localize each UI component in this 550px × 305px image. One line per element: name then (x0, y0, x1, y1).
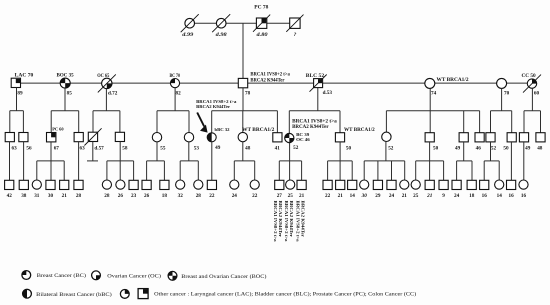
wire G13 sibship line (364, 160, 405, 162)
label II-6 BLC 52 (306, 74, 325, 79)
svg-text:52: 52 (491, 146, 497, 152)
svg-text:BRCA2 K944Ter: BRCA2 K944Ter (289, 201, 294, 238)
wire G15 drop to IV-31 (471, 161, 473, 180)
wire family F2 sibship line (51, 110, 78, 112)
wire family F5 drop to III-11 (276, 111, 278, 133)
label II-2 BOC 35 (57, 74, 75, 79)
wire G6 drop from III-6 (119, 142, 121, 180)
svg-text:74: 74 (431, 90, 437, 96)
legend breast cancer text (37, 272, 86, 279)
svg-text:63: 63 (80, 146, 86, 152)
individual III-21 male square (536, 133, 545, 142)
svg-text:26: 26 (118, 193, 124, 199)
svg-text:BRCA1 IVS8+2 t>a: BRCA1 IVS8+2 t>a (250, 73, 290, 78)
label III-17 age 46 (476, 146, 482, 152)
label III-6 age 58 (122, 146, 128, 152)
svg-text:BRCA2 K944Ter: BRCA2 K944Ter (278, 201, 283, 238)
wire G15 drop from III-16 (463, 142, 465, 161)
wire G12 sibship line (328, 160, 353, 162)
label II-3 d.72 (108, 90, 118, 96)
wire family F1 sibship line (10, 110, 24, 112)
individual III-18 male square (486, 133, 495, 142)
wire G6 drop to IV-7 (106, 161, 108, 180)
label III-12 age 52 (293, 145, 299, 151)
svg-text:29: 29 (375, 193, 381, 199)
svg-text:41: 41 (275, 146, 281, 152)
svg-text:23: 23 (131, 193, 137, 199)
svg-text:48: 48 (245, 146, 251, 152)
individual III-5 male square deceased (84, 128, 101, 145)
svg-text:16: 16 (521, 193, 527, 199)
label III-1 age 63 (12, 146, 18, 152)
svg-text:30: 30 (361, 193, 368, 199)
label III-12 OC 46 (296, 137, 311, 142)
wire G13 drop to IV-23 (363, 161, 365, 180)
label IV-32 age 16 (482, 193, 488, 199)
legend other cancer text (154, 291, 416, 298)
svg-text:30: 30 (48, 193, 54, 199)
label II-7 WT BRCA1/2 (437, 78, 470, 83)
svg-text:25: 25 (413, 193, 419, 199)
wire G4 drop III-4 to IV-6 (78, 142, 80, 180)
individual III-7 female circle (152, 133, 161, 142)
individual IV-17 male square (275, 180, 284, 189)
svg-text:BRCA2 K944Ter: BRCA2 K944Ter (196, 104, 230, 109)
label IV-21 age 21 (338, 193, 344, 199)
svg-text:22: 22 (325, 193, 331, 199)
svg-text:WT BRCA1/2: WT BRCA1/2 (242, 128, 275, 133)
label IV-18 age 25 (288, 193, 294, 199)
wire family F1 drop from II-1 (16, 88, 18, 111)
label II-4 BC 70 (170, 74, 181, 79)
label II-1 age 89 (17, 90, 23, 96)
svg-text:PC 78: PC 78 (254, 5, 269, 10)
svg-text:WT BRCA1/2: WT BRCA1/2 (344, 128, 375, 133)
label III-9 mutation BRCA1 line (196, 99, 237, 104)
individual II-2 female circle breast+ovarian cancer BOC 35 (60, 78, 70, 88)
wire G13 drop to IV-25 (391, 161, 393, 180)
wire drop from generation I couple to individual II-5 (242, 23, 244, 78)
label III-20 age 49 (525, 146, 531, 152)
individual IV-6 male square (74, 180, 83, 189)
individual IV-20 male square (323, 180, 332, 189)
svg-text:9: 9 (442, 193, 445, 199)
svg-text:46: 46 (476, 146, 482, 152)
legend other cancer circle (120, 290, 129, 299)
svg-text:BRCA2 K944Ter: BRCA2 K944Ter (300, 201, 305, 238)
svg-text:BRCA1 IVS8+2 t>a: BRCA1 IVS8+2 t>a (295, 201, 300, 243)
individual IV-25 male square (387, 180, 396, 189)
individual II-8 female circle (497, 78, 507, 88)
wire family F3 drop from II-3 (105, 89, 107, 111)
svg-text:18: 18 (162, 193, 168, 199)
label IV-3 age 31 (34, 193, 40, 199)
wire G8 drop from III-8 (188, 142, 190, 161)
label II-5 mutation BRCA2 line (250, 78, 284, 83)
label III-18 age 52 (491, 146, 497, 152)
wire G3 drop to IV-5 (63, 161, 65, 180)
label III-9 mutation BRCA2 line (196, 104, 230, 109)
wire G8 drop to IV-12 (179, 161, 181, 180)
label II-9 age 60 (534, 90, 540, 96)
svg-text:32: 32 (178, 193, 184, 199)
individual I-3 male square prostate cancer PC 78 (253, 15, 270, 32)
wire G18 drop III-20 to IV-35 (523, 142, 525, 180)
svg-text:BRCA2 K944Ter: BRCA2 K944Ter (250, 78, 284, 83)
svg-text:BOC 35: BOC 35 (57, 74, 75, 79)
label IV-26 age 21 (402, 193, 408, 199)
label IV-16 age 22 (252, 193, 258, 199)
wire family F1 drop to III-2 (22, 111, 24, 133)
svg-text:bBC 32: bBC 32 (215, 127, 231, 132)
label IV-25 age 24 (389, 193, 395, 199)
svg-text:49: 49 (525, 146, 531, 152)
svg-text:21: 21 (426, 193, 433, 199)
label IV-13 age 28 (196, 193, 202, 199)
individual III-14 female circle (382, 132, 391, 141)
wire G8 sibship line (180, 160, 198, 162)
label IV-19 age 21 (299, 193, 305, 199)
svg-text:24: 24 (454, 193, 460, 199)
svg-text:48: 48 (537, 146, 543, 152)
label II-1 LAC 70 (15, 74, 34, 79)
svg-text:OC 65: OC 65 (97, 74, 110, 79)
label IV-1 age 42 (7, 193, 13, 199)
legend breast cancer circle (22, 271, 31, 280)
svg-text:85: 85 (67, 90, 73, 96)
wire family F3 sibship line (93, 110, 120, 112)
individual III-1 male square (5, 133, 14, 142)
label IV-24 age 29 (375, 193, 381, 199)
individual II-4 female circle breast cancer BC 70 (170, 79, 179, 88)
wire G11 drop to IV-17 (278, 161, 280, 180)
svg-text:49: 49 (455, 146, 461, 152)
wire G14 drop from III-15 (429, 142, 431, 180)
label III-12 mutation BRCA2 line (292, 125, 329, 130)
svg-text:BLC 52: BLC 52 (306, 74, 325, 79)
wire generation I couple line (186, 22, 295, 24)
label III-16 age 49 (455, 146, 461, 152)
legend bilateral breast cancer circle (23, 289, 32, 298)
individual II-1 male square laryngeal cancer LAC 70 (11, 78, 20, 87)
svg-text:OC 46: OC 46 (296, 137, 311, 142)
label IV-17 age 27 (277, 193, 283, 199)
wire G14 drop to IV-27 (415, 161, 417, 180)
individual I-4 deceased male square (286, 15, 303, 32)
individual III-13 male square WT BRCA1/2 (335, 133, 344, 142)
wire family F4 sibship line (157, 110, 189, 112)
individual IV-16 female circle (250, 180, 259, 189)
svg-text:BRCA2 K944Ter: BRCA2 K944Ter (292, 125, 329, 130)
label I-3 d.80 (257, 32, 268, 38)
wire G5 drop from III-5 no offspring (92, 142, 94, 161)
wire family F2 drop to III-3 (50, 111, 52, 133)
label III-3 PC 60 (52, 126, 64, 131)
wire G7 drop to IV-10 (146, 161, 148, 180)
individual III-4 male square (74, 133, 83, 142)
label III-13 age 50 (346, 145, 352, 151)
individual III-9 female circle bilateral breast cancer bBC 32 proband (207, 133, 216, 142)
svg-text:52: 52 (293, 145, 299, 151)
svg-text:38: 38 (21, 193, 27, 199)
individual IV-1 male square (5, 180, 14, 189)
svg-text:d.80: d.80 (257, 32, 268, 38)
svg-text:21: 21 (299, 193, 305, 199)
wire G16 drop to IV-32 (483, 161, 485, 180)
svg-text:31: 31 (34, 193, 40, 199)
svg-text:Ovarian Cancer (OC): Ovarian Cancer (OC) (107, 272, 161, 279)
wire G10 sibship line (234, 160, 254, 162)
individual II-5 male square mutation carrier (238, 78, 247, 87)
svg-text:21: 21 (402, 193, 408, 199)
svg-text:14: 14 (497, 193, 503, 199)
svg-text:d.98: d.98 (216, 32, 227, 38)
label IV-19 mutation BRCA1 vertical (295, 201, 300, 243)
label IV-31 age 18 (469, 193, 475, 199)
individual I-1 deceased female circle (181, 14, 199, 32)
svg-text:82: 82 (176, 90, 182, 96)
svg-text:BRCA1 IVS8+2 t>a: BRCA1 IVS8+2 t>a (284, 201, 289, 243)
label IV-30 age 24 (454, 193, 460, 199)
wire family F6 drop to III-13 (339, 111, 341, 133)
legend breast+ovarian circle (168, 271, 177, 280)
wire family F5 drop to III-9 (211, 111, 213, 133)
wire family F4 drop from II-4 (174, 88, 176, 111)
label II-2 age 85 (67, 90, 73, 96)
wire family F9 drop to III-20 (523, 111, 525, 133)
label III-13 WT BRCA1/2 (344, 128, 375, 133)
individual IV-13 female circle (194, 180, 203, 189)
svg-text:d.99: d.99 (182, 32, 193, 38)
individual IV-15 female circle (230, 180, 239, 189)
label I-2 d.98 (216, 32, 227, 38)
wire family F5 sibship line (212, 110, 278, 112)
wire family F1 drop to III-1 (9, 111, 11, 133)
wire generation II couple line (16, 82, 532, 84)
label I-3 PC 78 (254, 5, 269, 10)
label II-3 OC 65 (97, 74, 110, 79)
wire family F5 drop to III-10 (242, 111, 244, 133)
legend bilateral breast cancer text (36, 291, 112, 298)
svg-text:60: 60 (534, 90, 540, 96)
individual IV-7 female circle (102, 180, 111, 189)
individual IV-31 male square (467, 180, 476, 189)
label II-6 d.53 (323, 90, 333, 96)
label III-21 age 48 (537, 146, 543, 152)
label IV-12 age 32 (178, 193, 184, 199)
wire family F7 drop to III-17 (479, 111, 481, 133)
label IV-33 age 14 (497, 193, 503, 199)
individual IV-30 male square (452, 180, 461, 189)
svg-text:63: 63 (12, 146, 18, 152)
legend ovarian cancer text (107, 272, 161, 279)
label IV-18 mutation BRCA2 vertical (289, 201, 294, 238)
svg-text:Breast and Ovarian Cancer (BO: Breast and Ovarian Cancer (BOC) (181, 273, 266, 280)
label I-1 d.99 (182, 32, 193, 38)
label III-8 age 53 (194, 146, 200, 152)
wire G7 sibship line (147, 160, 165, 162)
individual IV-12 female circle (176, 180, 185, 189)
wire family F8 drop from II-8 (501, 88, 503, 110)
wire family F6 drop from II-6 (317, 88, 319, 111)
label III-9 bBC 32 (215, 127, 231, 132)
label IV-17 mutation BRCA2 vertical (278, 201, 283, 238)
wire family F9 sibship line (524, 110, 541, 112)
wire G13 drop to IV-24 (377, 161, 379, 180)
individual III-2 male square (19, 133, 28, 142)
wire G3 drop from III-3 (50, 142, 52, 180)
wire G12 drop from III-13 (339, 142, 341, 180)
svg-text:89: 89 (17, 90, 23, 96)
svg-text:CC 50: CC 50 (522, 74, 537, 79)
label IV-4 age 30 (48, 193, 54, 199)
svg-text:28: 28 (76, 193, 82, 199)
individual IV-33 female circle (495, 180, 504, 189)
label IV-17 mutation BRCA1 vertical (273, 201, 278, 243)
individual IV-35 female circle (519, 180, 528, 189)
wire family F3 drop to III-5 (92, 111, 94, 133)
wire G15 sibship line (457, 160, 472, 162)
wire family F2 drop from II-2 (64, 88, 66, 111)
wire G11 drop from III-12 (289, 143, 291, 180)
label IV-20 age 22 (325, 193, 331, 199)
wire G16 drop to IV-33 (498, 161, 500, 180)
label IV-28 age 21 (426, 193, 433, 199)
label III-3 age 67 (54, 146, 60, 152)
label IV-7 age 28 (104, 193, 110, 199)
label II-4 age 82 (176, 90, 182, 96)
wire G12 drop to IV-22 (351, 161, 353, 180)
wire G7 drop from III-7 (156, 142, 158, 161)
legend breast+ovarian text (181, 273, 266, 280)
wire G10 drop to IV-16 (254, 161, 256, 180)
individual IV-32 male square (480, 180, 489, 189)
individual IV-34 male square (507, 180, 516, 189)
label IV-27 age 25 (413, 193, 419, 199)
svg-text:52: 52 (388, 146, 394, 152)
individual III-19 male square (507, 133, 516, 142)
label IV-5 age 21 (62, 193, 68, 199)
individual IV-29 male square (439, 180, 448, 189)
label III-10 age 48 (245, 146, 251, 152)
svg-text:55: 55 (160, 146, 166, 152)
wire G14 sibship line (416, 160, 444, 162)
label IV-22 age 14 (350, 193, 356, 199)
wire family F6 drop to III-12 (288, 111, 290, 134)
individual IV-10 male square (142, 180, 151, 189)
wire family F3 drop to III-6 (119, 111, 121, 133)
label I-4 ? (294, 32, 297, 38)
wire G3 drop to IV-3 (36, 161, 38, 180)
label IV-11 age 18 (162, 193, 168, 199)
individual IV-24 male square (373, 180, 382, 189)
individual III-12 female circle breast+ovarian cancer BC 39 OC 46 (285, 133, 294, 142)
wire family F7 sibship line (386, 110, 479, 112)
svg-text:21: 21 (338, 193, 344, 199)
wire family F7 drop from II-7 (429, 88, 431, 132)
wire family F9 drop from II-9 (531, 88, 533, 110)
svg-text:56: 56 (26, 146, 32, 152)
individual III-16 male square (459, 133, 468, 142)
wire G10 drop from III-10 (242, 142, 244, 161)
individual IV-4 male square (46, 180, 55, 189)
individual IV-27 female circle (411, 180, 420, 189)
label II-5 age 78 (245, 90, 251, 96)
svg-text:25: 25 (288, 193, 294, 199)
svg-text:14: 14 (350, 193, 356, 199)
individual IV-11 male square (160, 180, 169, 189)
wire G15 drop to IV-30 (456, 161, 458, 180)
label III-15 age 50 (433, 146, 439, 152)
label IV-9 age 23 (131, 193, 137, 199)
individual III-20 male square (519, 133, 528, 142)
svg-text:22: 22 (252, 193, 258, 199)
svg-text:Breast Cancer (BC): Breast Cancer (BC) (37, 272, 86, 279)
svg-text:24: 24 (232, 193, 238, 199)
label III-4 age 63 (80, 146, 86, 152)
individual III-15 male square (425, 133, 434, 142)
svg-text:53: 53 (194, 146, 200, 152)
label III-10 WT BRCA1/2 (242, 128, 275, 133)
svg-text:PC 60: PC 60 (52, 126, 64, 131)
individual III-11 male square (273, 133, 282, 142)
label III-12 BC 39 (296, 132, 310, 137)
individual IV-21 male square (336, 180, 345, 189)
individual IV-2 male square (19, 180, 28, 189)
wire G11 sibship line (279, 160, 301, 162)
label II-8 age 70 (504, 90, 510, 96)
label II-9 CC 50 (522, 74, 537, 79)
wire G2 drop III-2 to IV-2 (23, 142, 25, 180)
svg-text:70: 70 (504, 90, 510, 96)
wire G6 drop to IV-9 (133, 161, 135, 180)
wire G1 drop III-1 to IV-1 (9, 142, 11, 180)
wire G11 drop to IV-19 (301, 161, 303, 180)
label III-11 age 41 (275, 146, 281, 152)
individual IV-22 male square (348, 180, 357, 189)
individual IV-28 male square (425, 180, 434, 189)
svg-text:BRCA1 IVS8+2 t>a: BRCA1 IVS8+2 t>a (292, 120, 337, 125)
wire family F7 drop to III-14 (385, 111, 387, 133)
svg-text:49: 49 (215, 145, 221, 151)
wire G16 sibship line (484, 160, 499, 162)
svg-text:58: 58 (122, 146, 128, 152)
svg-text:16: 16 (482, 193, 488, 199)
svg-text:d.57: d.57 (94, 146, 104, 152)
individual IV-3 female circle (32, 180, 41, 189)
svg-text:24: 24 (389, 193, 395, 199)
svg-text:18: 18 (469, 193, 475, 199)
wire family F8 sibship line (491, 110, 512, 112)
label IV-18 mutation BRCA1 vertical (284, 201, 289, 243)
label IV-35 age 16 (521, 193, 527, 199)
svg-text:16: 16 (509, 193, 515, 199)
wire family F5 drop from II-5 (242, 88, 244, 111)
wire G13 drop from III-14 (385, 142, 387, 161)
svg-text:LAC 70: LAC 70 (15, 74, 34, 79)
individual IV-23 female circle (360, 180, 369, 189)
individual III-3 male square prostate cancer PC 60 (47, 133, 56, 142)
label IV-19 mutation BRCA2 vertical (300, 201, 305, 238)
wire G7 drop to IV-11 (163, 161, 165, 180)
individual II-7 female circle WT BRCA1/2 (425, 78, 435, 88)
label III-9 age 49 (215, 145, 221, 151)
wire family F9 drop to III-21 (540, 111, 542, 133)
svg-text:28: 28 (196, 193, 202, 199)
individual IV-9 male square (129, 180, 138, 189)
svg-text:78: 78 (245, 90, 251, 96)
label IV-2 age 38 (21, 193, 27, 199)
